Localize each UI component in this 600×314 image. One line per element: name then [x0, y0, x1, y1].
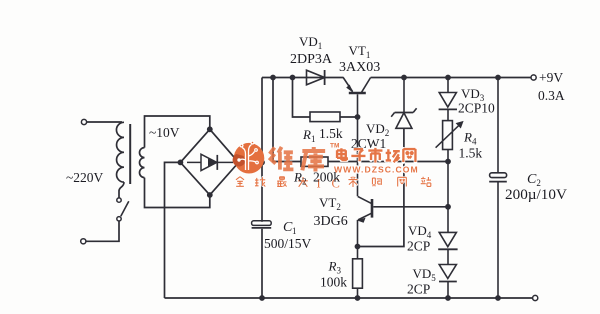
bridge rectifier internal diode	[187, 161, 201, 163]
transformer T secondary winding	[140, 148, 145, 178]
svg-text:2CP10: 2CP10	[458, 101, 495, 116]
wire: R2 feed riser	[273, 78, 301, 162]
junction: R1/VT1 base	[355, 114, 361, 120]
zener diode VD2	[395, 112, 414, 114]
wire: VD4 anode lead	[447, 207, 449, 233]
wire: C2 to ground rail	[497, 182, 499, 298]
svg-text:2DP3A: 2DP3A	[290, 52, 333, 67]
diode VD3	[439, 93, 456, 108]
transformer T primary winding	[116, 122, 124, 182]
wire: AC input top lead	[87, 121, 122, 123]
svg-text:1.5k: 1.5k	[459, 146, 483, 161]
transistor VT1 base lead	[357, 94, 359, 196]
transistor VT2 base bar	[371, 199, 374, 218]
wire: switch to AC input bottom	[86, 221, 119, 241]
wire: R3 to ground rail	[357, 288, 359, 298]
svg-text:500/15V: 500/15V	[264, 236, 312, 251]
junction: output rail to VD2	[401, 75, 407, 81]
wire: R2 to sampling node	[328, 161, 448, 163]
svg-text:2CP: 2CP	[407, 282, 430, 297]
svg-text:1.5k: 1.5k	[319, 126, 343, 141]
transistor VT1 base bar	[349, 92, 366, 95]
svg-text:~10V: ~10V	[149, 125, 180, 140]
bridge rectifier UR diamond	[180, 129, 238, 195]
svg-text:~220V: ~220V	[66, 170, 104, 185]
wire: secondary top to bridge AC1	[145, 116, 210, 148]
junction: R3 ground	[355, 295, 361, 301]
wire: secondary bottom to bridge AC2	[145, 178, 210, 208]
transformer core	[129, 124, 131, 184]
wire: VD5 to ground rail	[447, 282, 449, 299]
wire: VD3 anode lead	[447, 78, 449, 93]
resistor R1	[310, 112, 340, 122]
svg-text:TM: TM	[330, 143, 339, 150]
junction: VD5 ground	[445, 295, 451, 301]
transistor VT1 emitter	[343, 78, 352, 92]
svg-text:0.3A: 0.3A	[538, 88, 565, 103]
capacitor C1 (electrolytic) plates	[252, 221, 272, 226]
switch S blade	[121, 201, 129, 216]
svg-text:3DG6: 3DG6	[314, 214, 348, 229]
wire: bridge positive output	[239, 161, 262, 163]
svg-text:3AX03: 3AX03	[339, 60, 380, 75]
wire: DC+ riser to top rail	[261, 78, 263, 163]
junction: C1 ground	[259, 295, 265, 301]
svg-text:200k: 200k	[313, 170, 340, 185]
wire: R1 feed riser	[293, 78, 311, 118]
diode VD4	[439, 232, 456, 246]
wire: top rail left segment	[262, 77, 344, 79]
diode VD1	[307, 70, 325, 85]
resistor R2	[301, 157, 328, 166]
junction: output rail to VD3	[445, 75, 451, 81]
switch S lower contact	[117, 217, 121, 221]
wire: C2 top lead	[497, 78, 499, 174]
junction: bridge top vertex	[207, 126, 213, 132]
wire: R3 top lead	[357, 247, 359, 259]
svg-text:2CP: 2CP	[407, 239, 430, 254]
junction: sampling node at VD4	[445, 204, 451, 210]
wire: VT2 base lead	[373, 206, 448, 208]
wire: R4 to sampling wire	[447, 150, 449, 162]
terminal: AC input bottom	[81, 239, 86, 244]
svg-text:1: 1	[292, 226, 297, 236]
wire: VT2 emitter lead	[357, 220, 359, 247]
transistor VT2 collector	[358, 196, 372, 203]
wire: VD3 to R4	[447, 109, 449, 120]
wire: C1 to ground rail	[261, 229, 263, 298]
wire: DC+ down to C1	[261, 162, 263, 221]
wire: VD4 to VD5	[447, 249, 449, 264]
junction: top rail to R1 feed	[290, 75, 296, 81]
wire: R1 to VT1 base	[340, 116, 358, 118]
junction: R4 bottom node	[445, 159, 451, 165]
wire: bottom ground rail	[165, 297, 533, 299]
svg-text:100k: 100k	[320, 275, 347, 290]
terminal: output positive	[531, 75, 536, 80]
potentiometer R4	[443, 121, 453, 150]
switch S upper contact	[117, 198, 121, 202]
junction: output rail to C2	[495, 75, 501, 81]
wire: bridge negative to ground rail	[165, 162, 181, 298]
wire: VD2 anode to VT2 emitter node	[358, 128, 404, 246]
junction: node DC+ at C1 column	[259, 160, 265, 166]
svg-text:+9V: +9V	[539, 70, 563, 85]
terminal: output negative	[533, 295, 538, 300]
junction: bridge right vertex	[236, 160, 242, 166]
wire: sampling node riser	[447, 162, 449, 207]
transistor VT1 collector	[362, 78, 371, 93]
terminal: AC input top	[81, 119, 86, 124]
wire: primary bottom lead to switch	[119, 182, 124, 198]
wire: top rail output segment	[371, 77, 531, 79]
transistor VT2 emitter	[358, 213, 372, 220]
junction: top rail to R2 feed	[270, 75, 276, 81]
svg-text:WWW.DZSC.COM: WWW.DZSC.COM	[334, 165, 419, 175]
watermark (decorative)	[234, 143, 265, 174]
diode VD5	[439, 265, 456, 279]
resistor R3	[353, 259, 363, 288]
junction: bridge left vertex	[178, 160, 184, 166]
junction: bridge bottom vertex	[207, 192, 213, 198]
junction: VT2 emitter / R3	[355, 244, 361, 250]
svg-text:200µ/10V: 200µ/10V	[505, 186, 567, 203]
wire: VD2 cathode lead	[403, 78, 405, 113]
capacitor C2 (electrolytic) plates	[490, 173, 507, 178]
junction: C2 ground	[495, 295, 501, 301]
